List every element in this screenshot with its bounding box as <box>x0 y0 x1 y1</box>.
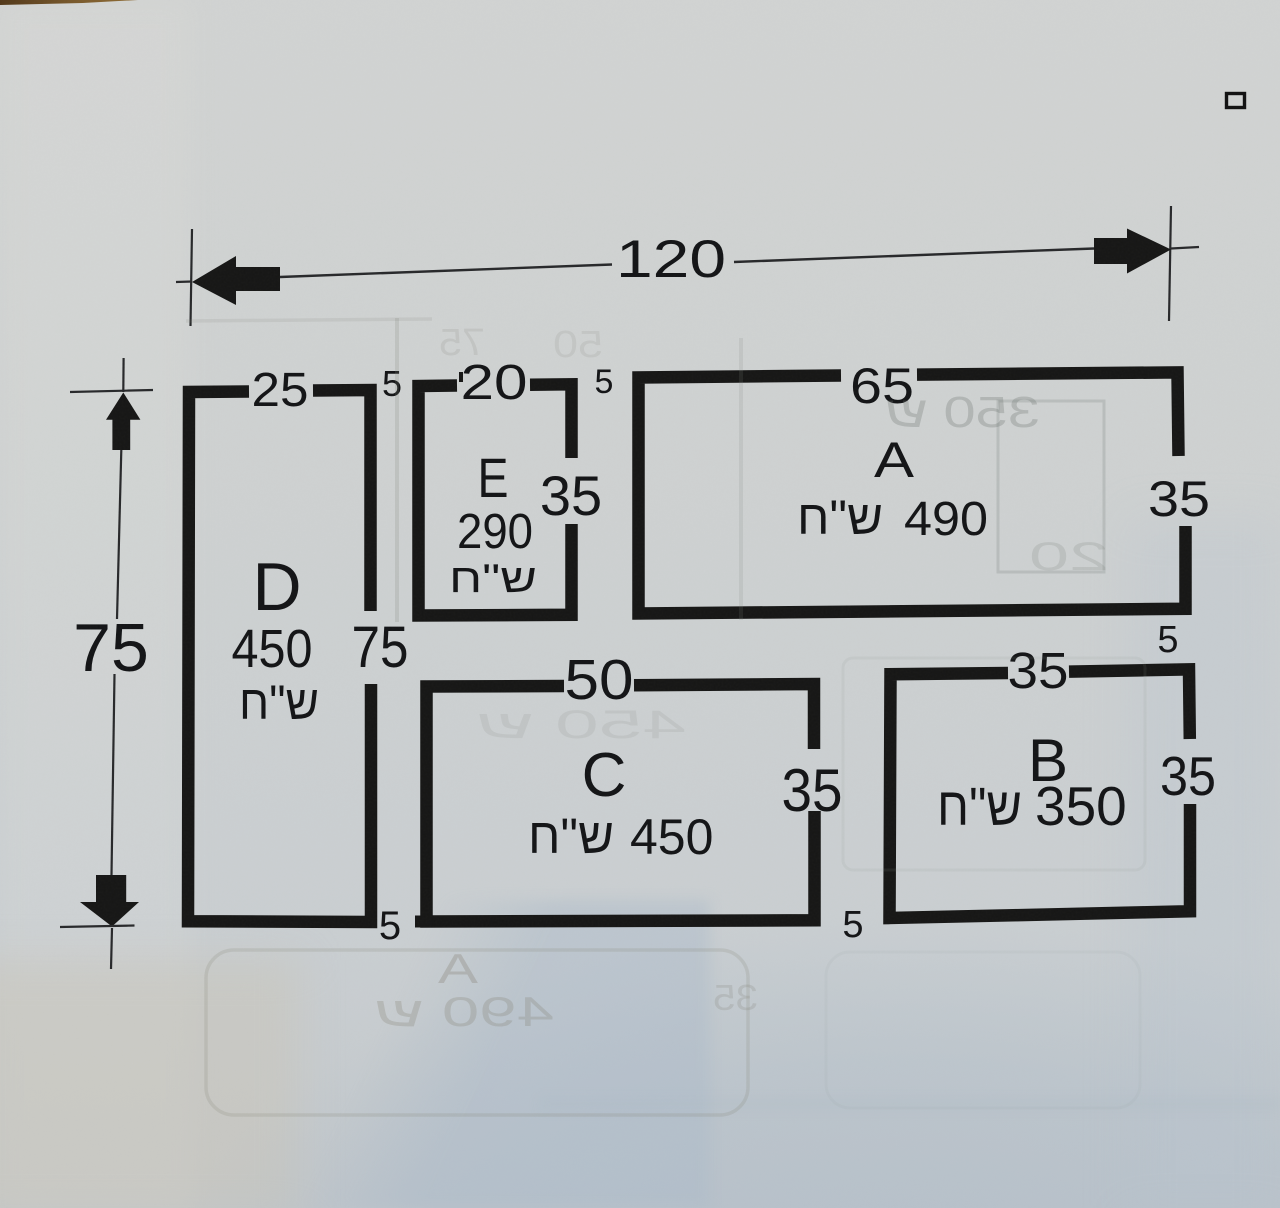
room A walls (top-right + right-upper) <box>917 372 1179 456</box>
dimension line 120: shaft right segment <box>734 249 1094 263</box>
room D walls (top-right + right-upper) <box>313 390 371 611</box>
ghost bleed-through: rounded box around B <box>843 658 1145 870</box>
room B walls (left+bottom+right-lower) <box>890 673 1191 918</box>
dimension line 75: shaft above text <box>117 450 121 619</box>
tick mark before E's 20 label <box>459 372 463 382</box>
dimension line 120: left extension tick <box>191 229 193 326</box>
dimension line 120: right arrowhead <box>1094 229 1171 274</box>
dimension line 120: stub right of tick <box>1171 247 1199 249</box>
dimension line 75: bottom extension tick <box>60 926 135 928</box>
dimension line 75: top extension tick <box>70 390 153 392</box>
dimension line 120: right extension tick <box>1169 206 1171 321</box>
room C walls (top-right + right-upper) <box>634 684 814 749</box>
room C bottom-left corner nub <box>415 916 427 928</box>
paper shading: bluish tint right side <box>1130 520 1280 1208</box>
dimension line 75: shaft below text <box>112 674 115 875</box>
room B walls (top-right + right-upper) <box>1069 669 1190 739</box>
room C walls (left+bottom+right-lower) <box>427 686 815 922</box>
paper shading: faint band <box>540 1098 1280 1110</box>
room A walls (left+bottom+right-lower) <box>639 376 1186 614</box>
checkbox square top right <box>1227 94 1245 108</box>
wood table sliver top-left <box>0 0 138 5</box>
dimension line 120: left arrowhead <box>192 256 280 305</box>
dimension line 120: stub left of tick <box>176 280 192 283</box>
ghost bleed-through: box outline right of A <box>998 401 1104 572</box>
room E walls (top-right + right-upper) <box>530 384 572 458</box>
dimension line 75: lower shaft <box>111 928 112 969</box>
dimension line 75: up arrowhead <box>106 393 140 451</box>
dimension line 75: upper shaft <box>122 358 124 392</box>
ghost bleed-through: vertical line left of A <box>739 338 743 620</box>
paper shading: light left strip <box>0 0 190 1208</box>
ghost bleed-through: horizontal line top left <box>186 319 432 321</box>
ghost bleed-through: big rounded box bottom left <box>206 950 748 1115</box>
room E walls (left+bottom+right-lower) <box>419 386 572 616</box>
ghost bleed-through: vertical line between D and E <box>395 318 399 622</box>
dimension line 75: down arrowhead <box>80 875 139 927</box>
dimension line 120: shaft left segment <box>280 265 612 278</box>
room D walls (left+bottom+right-lower) <box>188 392 371 923</box>
ghost bleed-through: rounded box bottom right <box>826 952 1140 1108</box>
paper shading: warm bottom-left <box>0 960 300 1208</box>
paper shading: shadow wedge bottom-left <box>150 900 710 1208</box>
